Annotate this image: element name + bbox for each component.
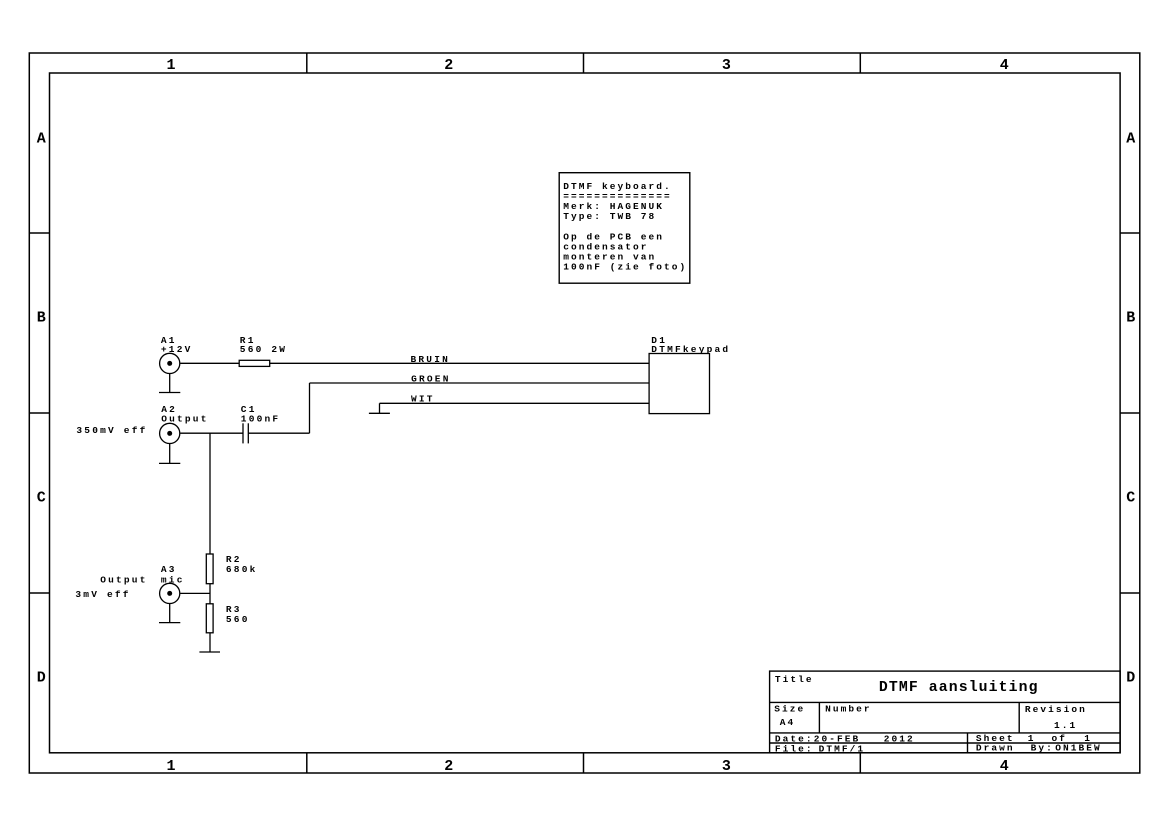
- svg-text:Output: Output: [100, 574, 147, 585]
- svg-text:BRUIN: BRUIN: [411, 354, 451, 365]
- svg-text:100nF (zie foto): 100nF (zie foto): [563, 261, 687, 272]
- svg-text:WIT: WIT: [411, 394, 435, 405]
- svg-text:C: C: [37, 489, 46, 506]
- svg-text:mic: mic: [161, 574, 185, 585]
- svg-text:2012: 2012: [884, 734, 915, 745]
- svg-text:4: 4: [1000, 57, 1009, 74]
- svg-text:2: 2: [444, 758, 453, 775]
- svg-text:680k: 680k: [226, 564, 258, 575]
- svg-text:DTMF aansluiting: DTMF aansluiting: [879, 680, 1039, 696]
- svg-text:Number: Number: [825, 704, 872, 715]
- svg-text:A: A: [1126, 130, 1135, 147]
- svg-text:GROEN: GROEN: [411, 374, 451, 385]
- svg-text:Revision: Revision: [1025, 704, 1087, 715]
- svg-text:C: C: [1126, 489, 1135, 506]
- svg-text:Type: TWB 78: Type: TWB 78: [563, 211, 656, 222]
- svg-text:1: 1: [166, 758, 175, 775]
- svg-text:Size: Size: [774, 704, 805, 715]
- svg-text:By:: By:: [1031, 743, 1054, 754]
- svg-text:Title: Title: [775, 674, 814, 685]
- svg-text:1: 1: [166, 57, 175, 74]
- svg-text:3: 3: [722, 57, 731, 74]
- svg-text:4: 4: [1000, 758, 1009, 775]
- svg-text:560 2W: 560 2W: [240, 344, 287, 355]
- svg-text:100nF: 100nF: [241, 413, 281, 424]
- svg-text:B: B: [37, 310, 46, 327]
- svg-text:A4: A4: [780, 717, 796, 728]
- svg-text:Drawn: Drawn: [976, 743, 1015, 754]
- svg-text:560: 560: [226, 614, 250, 625]
- svg-text:3: 3: [722, 758, 731, 775]
- svg-text:1.1: 1.1: [1054, 720, 1077, 731]
- svg-text:D: D: [1126, 669, 1135, 686]
- svg-text:DTMF/1: DTMF/1: [819, 743, 866, 754]
- svg-text:File:: File:: [775, 743, 814, 754]
- svg-text:+12V: +12V: [161, 344, 193, 355]
- svg-text:Output: Output: [161, 413, 208, 424]
- svg-text:ON1BEW: ON1BEW: [1055, 743, 1102, 754]
- svg-text:A: A: [37, 130, 46, 147]
- svg-text:DTMFkeypad: DTMFkeypad: [651, 344, 730, 355]
- svg-text:350mV eff: 350mV eff: [76, 425, 147, 436]
- svg-text:2: 2: [444, 57, 453, 74]
- svg-text:D: D: [37, 669, 46, 686]
- svg-text:B: B: [1126, 310, 1135, 327]
- svg-text:3mV eff: 3mV eff: [75, 589, 130, 600]
